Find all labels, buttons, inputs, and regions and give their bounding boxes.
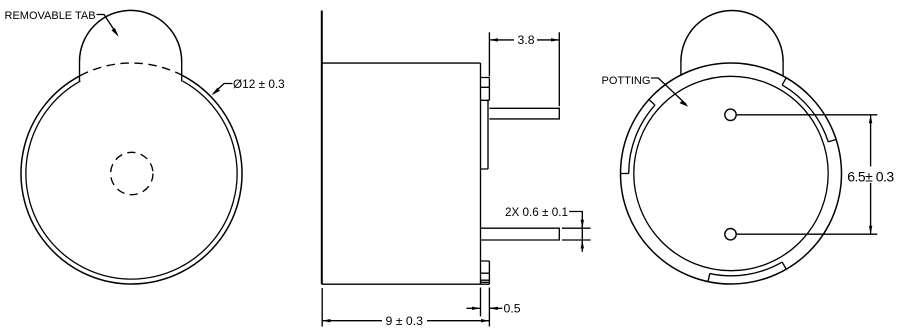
svg-text:2X 0.6 ± 0.1: 2X 0.6 ± 0.1 — [505, 206, 568, 219]
dimension 6.5 line with arrows — [870, 115, 872, 167]
terminal base upper steps — [481, 78, 490, 101]
arrowhead POTTING leader — [680, 100, 689, 107]
dimension 2X 0.6 extension lines — [562, 228, 591, 240]
tab right edge (front view) — [181, 62, 183, 82]
lower terminal pin (back view) — [725, 229, 736, 240]
terminal base strip — [481, 100, 489, 169]
leader line for diameter label — [213, 84, 232, 94]
arrowhead REMOVABLE TAB — [112, 28, 119, 37]
side view case body bottom edge — [322, 283, 490, 285]
side view: removable tab seen edge-on — [321, 11, 323, 285]
svg-text:3.8: 3.8 — [518, 33, 535, 47]
side view case body right edge — [480, 63, 482, 284]
crimp segment left arc — [629, 105, 655, 173]
crimp segment bottom end lines — [708, 262, 786, 282]
svg-text:POTTING: POTTING — [602, 75, 651, 87]
center hole dashed circle — [111, 152, 153, 194]
svg-text:REMOVABLE TAB: REMOVABLE TAB — [5, 10, 96, 22]
leader line for POTTING — [651, 78, 687, 105]
crimp segment top-right arc — [782, 85, 828, 142]
leader line for REMOVABLE TAB — [97, 15, 118, 35]
back view potting boundary circle — [634, 76, 828, 270]
back view tab dome arc — [681, 10, 783, 61]
upper terminal pin (back view) — [725, 109, 736, 120]
svg-text:9 ± 0.3: 9 ± 0.3 — [386, 314, 424, 328]
crimp segment left end lines — [621, 100, 655, 174]
dimension 6.5 extension lines — [736, 115, 877, 234]
back tab left edge — [680, 62, 682, 76]
svg-text:6.5± 0.3: 6.5± 0.3 — [847, 168, 894, 184]
dimension 9 extension line — [321, 288, 323, 327]
dimension 2X 0.6 leader — [569, 212, 582, 252]
front view inner rim circle — [26, 81, 237, 279]
side view case body top edge — [322, 62, 481, 64]
upper terminal pin (side view) — [489, 108, 559, 119]
svg-text:0.5: 0.5 — [504, 301, 521, 315]
lower terminal pin (side view) — [481, 228, 560, 240]
crimp segment top-right end lines — [782, 78, 836, 142]
arrowhead diameter leader — [212, 88, 221, 96]
svg-text:Ø12 ± 0.3: Ø12 ± 0.3 — [233, 77, 285, 91]
back tab right edge — [782, 62, 784, 76]
dimension 0.5 extension lines — [481, 288, 490, 327]
dimension 2X 0.6 arrows — [581, 220, 583, 228]
removable tab dome arc (front view) — [80, 10, 182, 61]
crimp segment bottom arc — [710, 262, 782, 276]
dimension 9 line with arrows — [322, 320, 382, 322]
back view outer case circle — [621, 63, 842, 284]
tab left edge (front view) — [79, 62, 81, 82]
dimension 0.5 arrows and tails — [467, 307, 481, 309]
front view outer case circle — [21, 76, 242, 284]
dimension 3.8 extension lines — [489, 32, 559, 106]
terminal base lower steps — [481, 261, 490, 284]
dimension 3.8 line with arrows — [489, 39, 514, 41]
hidden case edge under tab (dashed arc) — [80, 63, 182, 76]
